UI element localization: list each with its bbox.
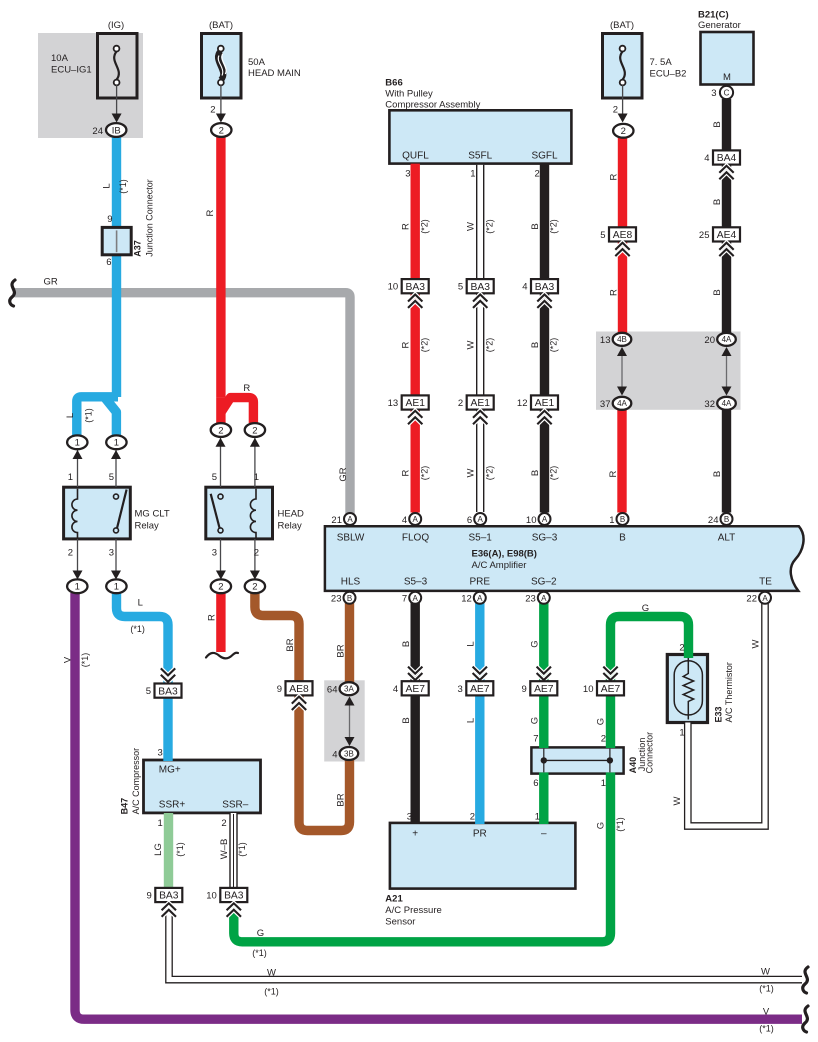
wire G green SG-2 from amplifier through A40 to pressure sensor - [539, 603, 548, 748]
svg-text:G: G [642, 603, 649, 614]
svg-text:BA3: BA3 [159, 891, 179, 902]
svg-text:MG CLT: MG CLT [135, 509, 170, 520]
svg-text:BA3: BA3 [405, 282, 425, 293]
svg-text:A/C Compressor: A/C Compressor [131, 748, 141, 815]
svg-text:Sensor: Sensor [385, 917, 415, 928]
svg-text:AE8: AE8 [289, 684, 309, 695]
svg-text:32: 32 [704, 399, 715, 410]
oval 2 right above HEAD relay [245, 423, 265, 437]
leads HEAD relay pins 5 and 1 up to ovals with arrowheads [220, 438, 222, 487]
svg-text:(*2): (*2) [549, 466, 559, 481]
break at right edge of W wire [803, 967, 808, 993]
svg-text:10: 10 [206, 891, 217, 902]
svg-text:1: 1 [679, 728, 684, 739]
svg-text:4: 4 [402, 515, 407, 526]
svg-text:64: 64 [327, 685, 338, 696]
svg-text:HEAD: HEAD [278, 509, 305, 520]
junction connector A40 box [531, 747, 623, 773]
svg-text:7: 7 [533, 734, 538, 745]
fuse 10A ECU-IG1 symbol [114, 46, 120, 86]
svg-text:2: 2 [221, 818, 226, 829]
svg-text:TE: TE [759, 577, 772, 588]
thermistor E33 symbol [674, 657, 702, 720]
lead from HEAD MAIN fuse to oval 2 with arrowhead [220, 85, 222, 119]
junction oval 20 4A [717, 333, 736, 346]
svg-text:3: 3 [711, 88, 716, 99]
svg-text:2: 2 [252, 425, 257, 436]
svg-text:(*2): (*2) [484, 338, 494, 353]
connector 13 AE1 [402, 395, 429, 409]
connector 25 AE4 on generator wire [713, 227, 740, 241]
svg-text:W: W [466, 222, 477, 231]
svg-text:3: 3 [109, 548, 114, 559]
svg-text:PR: PR [473, 829, 487, 840]
connector 9 AE7 on SG-2 wire [537, 673, 551, 680]
svg-text:4B: 4B [617, 335, 627, 344]
connector oval 2 of HEAD MAIN [211, 123, 231, 137]
svg-text:1: 1 [114, 582, 119, 593]
relay HEAD coil [250, 489, 256, 538]
svg-text:B: B [530, 342, 541, 348]
svg-text:13: 13 [388, 398, 399, 409]
svg-text:With Pulley: With Pulley [385, 89, 433, 100]
double arrow between 3A and 3B ovals [349, 698, 351, 744]
wire BR brown from 3A oval up to amplifier HLS [345, 603, 354, 683]
svg-text:9: 9 [147, 891, 152, 902]
svg-text:L: L [466, 641, 477, 646]
amplifier pin 10 A SG-3 [539, 513, 551, 525]
svg-text:1: 1 [158, 818, 163, 829]
wire L blue fork horizontal and left branch to oval 1 [77, 397, 118, 436]
gray highlight box around 4B/4A junction ovals [596, 332, 741, 410]
svg-text:R: R [401, 341, 412, 348]
svg-text:BA3: BA3 [535, 282, 555, 293]
svg-text:B: B [724, 515, 729, 524]
svg-text:2: 2 [218, 582, 223, 593]
svg-text:(*2): (*2) [484, 466, 494, 481]
svg-text:B: B [712, 121, 723, 127]
svg-text:(*1): (*1) [264, 987, 279, 997]
svg-text:4: 4 [332, 749, 337, 760]
svg-text:B: B [712, 471, 723, 477]
svg-text:B21(C): B21(C) [698, 9, 729, 20]
svg-text:20: 20 [704, 335, 715, 346]
wire GR gray from left edge to amplifier SBLW [15, 293, 351, 519]
svg-text:L: L [65, 413, 76, 418]
connector 10 BA3 on green wire [220, 888, 247, 902]
amplifier pin 23 B HLS [344, 592, 356, 604]
svg-text:B: B [530, 223, 541, 229]
svg-text:5: 5 [109, 472, 114, 483]
wire V purple from oval 1 down left side and along bottom [75, 593, 802, 1019]
svg-text:E36(A), E98(B): E36(A), E98(B) [472, 549, 537, 560]
amplifier pin 23 A SG-2 [538, 592, 550, 604]
connector oval 2 of ECU-B2 [613, 124, 633, 138]
svg-text:V: V [62, 656, 73, 663]
amplifier pin 22 A TE [759, 592, 771, 604]
svg-text:A: A [541, 594, 547, 603]
svg-text:AE7: AE7 [601, 684, 621, 695]
svg-text:4: 4 [522, 282, 527, 293]
svg-text:AE1: AE1 [405, 398, 425, 409]
svg-text:G: G [530, 717, 541, 724]
svg-text:1: 1 [609, 515, 614, 526]
wire B black from junction 4A to amplifier ALT [722, 410, 731, 513]
svg-text:1: 1 [601, 778, 606, 789]
fuse 50A HEAD MAIN box [202, 34, 242, 99]
svg-text:A: A [478, 515, 484, 524]
svg-text:1: 1 [75, 438, 80, 449]
relay HEAD switch [211, 494, 220, 528]
svg-text:AE1: AE1 [470, 398, 490, 409]
svg-text:1: 1 [75, 582, 80, 593]
svg-text:S5–1: S5–1 [469, 533, 493, 544]
svg-text:12: 12 [517, 398, 528, 409]
wire LG light green from SSR+ to 9 BA3 [164, 813, 173, 890]
thermistor E33 box [667, 655, 707, 723]
svg-text:4A: 4A [722, 399, 732, 408]
connector 5 BA3 on blue wire above compressor [161, 675, 175, 682]
svg-text:9: 9 [277, 684, 282, 695]
svg-text:A/C Pressure: A/C Pressure [385, 905, 442, 916]
svg-text:L: L [138, 598, 143, 609]
svg-text:3B: 3B [344, 749, 354, 758]
svg-text:AE4: AE4 [717, 230, 737, 241]
wire R red QUFL from B66 to amplifier FLOQ [411, 164, 420, 513]
svg-text:(*1): (*1) [237, 842, 247, 857]
svg-text:1: 1 [254, 472, 259, 483]
svg-text:W: W [466, 468, 477, 477]
svg-text:–: – [541, 829, 547, 840]
svg-text:BA4: BA4 [717, 153, 737, 164]
svg-text:A: A [542, 515, 548, 524]
svg-text:12: 12 [461, 594, 472, 605]
svg-text:SG–2: SG–2 [531, 577, 557, 588]
generator pin circle C pin 3 [720, 86, 733, 99]
junction oval 4 3B [340, 747, 359, 760]
junction oval 13 4B [613, 333, 632, 346]
svg-text:ECU–B2: ECU–B2 [650, 68, 687, 79]
svg-text:B: B [401, 641, 412, 647]
connector 4 BA4 on generator wire [713, 150, 740, 164]
svg-text:R: R [401, 223, 412, 230]
wire L blue PRE from amplifier to pressure sensor PR [475, 603, 484, 824]
svg-text:3: 3 [405, 169, 410, 180]
svg-text:G: G [595, 822, 606, 829]
svg-text:4A: 4A [617, 399, 627, 408]
connector 5 AE8 on ECU-B2 wire [609, 227, 636, 241]
svg-text:AE7: AE7 [470, 684, 490, 695]
svg-text:Compressor Assembly: Compressor Assembly [385, 99, 480, 110]
svg-text:(BAT): (BAT) [610, 20, 634, 31]
svg-text:A: A [413, 515, 419, 524]
amplifier pin 7 A S5-3 [409, 592, 421, 604]
wire R red from BAT fuse oval down to fork [216, 130, 225, 398]
wire L blue from IB oval through A37 to fork [112, 130, 121, 397]
amplifier pin 24 B ALT [721, 513, 733, 525]
svg-text:B: B [712, 199, 723, 205]
svg-text:(*1): (*1) [252, 948, 267, 958]
lead from ECU-B2 fuse to oval 2 with arrowhead [622, 85, 624, 119]
svg-text:25: 25 [699, 230, 710, 241]
svg-text:22: 22 [746, 594, 757, 605]
amplifier pin 4 A FLOQ [409, 513, 421, 525]
svg-text:SGFL: SGFL [531, 151, 558, 162]
svg-text:SBLW: SBLW [337, 533, 365, 544]
svg-text:3A: 3A [344, 685, 354, 694]
svg-text:2: 2 [613, 105, 618, 116]
amplifier pin 12 A PRE [474, 592, 486, 604]
svg-text:2: 2 [68, 548, 73, 559]
wire R red from ECU-B2 oval to junction 4B [618, 137, 627, 334]
fuse 7.5A ECU-B2 box [603, 34, 643, 99]
svg-text:3: 3 [158, 748, 163, 759]
oval 2 left above HEAD relay [211, 423, 231, 437]
wire R red stub below HEAD relay [216, 593, 225, 652]
svg-text:A37: A37 [132, 240, 142, 257]
wire BR brown from 9 AE8 down, across, up to 3B oval [299, 694, 350, 831]
svg-text:A: A [347, 515, 353, 524]
svg-text:37: 37 [600, 399, 611, 410]
compressor B47 box [144, 760, 261, 813]
svg-text:BR: BR [285, 638, 296, 651]
wire G green from 10 AE7 down through A40 to bottom run [606, 694, 615, 748]
svg-text:+: + [412, 829, 418, 840]
svg-text:A: A [762, 594, 768, 603]
svg-text:B: B [401, 717, 412, 723]
svg-text:Generator: Generator [698, 20, 741, 31]
svg-text:(IG): (IG) [108, 20, 124, 31]
break at left edge of GR wire [10, 280, 15, 306]
svg-text:2: 2 [535, 169, 540, 180]
svg-text:A/C Thermistor: A/C Thermistor [724, 662, 734, 722]
wire B black SGFL from B66 to amplifier SG-3 [540, 164, 549, 513]
svg-text:Relay: Relay [278, 521, 303, 532]
fuse 7.5A ECU-B2 symbol [620, 46, 626, 86]
break squiggle on red stub [206, 653, 238, 659]
svg-text:A21: A21 [385, 894, 403, 905]
relay MG CLT coil [72, 489, 78, 538]
connector oval IB pin 24 [106, 123, 126, 137]
svg-text:(*2): (*2) [419, 219, 429, 234]
connector 10 AE7 on green wire [603, 673, 617, 680]
leads MG CLT relay pins 2 and 3 down to ovals with arrowheads [77, 539, 79, 574]
svg-text:BR: BR [335, 644, 346, 657]
oval 1 right below MG CLT [106, 579, 126, 593]
svg-text:7. 5A: 7. 5A [650, 57, 673, 68]
svg-text:W–B: W–B [219, 839, 230, 860]
svg-text:4: 4 [393, 684, 398, 695]
svg-text:BA3: BA3 [158, 686, 178, 697]
connector 9 AE8 on brown wire [286, 681, 313, 695]
svg-text:E33: E33 [713, 706, 723, 722]
svg-text:S5FL: S5FL [468, 151, 492, 162]
svg-text:L: L [101, 183, 112, 188]
svg-text:(*1): (*1) [615, 817, 625, 832]
svg-text:(*2): (*2) [549, 219, 559, 234]
svg-text:24: 24 [92, 126, 103, 137]
svg-text:BA3: BA3 [224, 891, 244, 902]
svg-text:M: M [723, 72, 731, 83]
svg-text:W: W [466, 340, 477, 349]
svg-text:3: 3 [407, 812, 412, 823]
wire BR brown from HEAD relay oval 2 to 9 AE8 [255, 593, 299, 684]
svg-text:21: 21 [331, 515, 342, 526]
relay MG CLT switch [117, 490, 127, 529]
wire R red left branch to oval 2 [216, 398, 225, 423]
svg-text:MG+: MG+ [159, 765, 181, 776]
svg-text:G: G [257, 928, 264, 939]
amplifier pin 21 A SBLW [344, 513, 356, 525]
svg-text:4: 4 [704, 153, 709, 164]
svg-text:B: B [712, 289, 723, 295]
wire L blue right branch diagonal to oval 1 [106, 399, 117, 436]
svg-text:B: B [347, 594, 352, 603]
connector 12 AE1 [531, 395, 558, 409]
svg-text:B: B [530, 470, 541, 476]
connector 4 BA3 on SGFL wire [531, 279, 558, 293]
svg-text:1: 1 [114, 438, 119, 449]
svg-text:HLS: HLS [341, 577, 361, 588]
svg-text:3: 3 [458, 684, 463, 695]
svg-text:6: 6 [533, 778, 538, 789]
svg-text:1: 1 [68, 472, 73, 483]
junction oval 64 3A [340, 682, 359, 695]
fuse 50A HEAD MAIN symbol [218, 46, 226, 86]
wire L blue jog from oval 1 to 5 BA3 connector [117, 593, 169, 684]
wire B black from generator C to junction 4A [722, 99, 731, 334]
svg-text:R: R [207, 614, 218, 621]
svg-text:(*2): (*2) [549, 338, 559, 353]
svg-text:ECU–IG1: ECU–IG1 [51, 64, 92, 75]
svg-text:SSR+: SSR+ [159, 800, 186, 811]
svg-text:FLOQ: FLOQ [402, 533, 429, 544]
leads MG CLT relay pins 1 and 5 up to ovals with arrowheads [77, 450, 79, 487]
svg-text:ALT: ALT [718, 533, 736, 544]
svg-text:G: G [595, 718, 606, 725]
svg-text:BA3: BA3 [470, 282, 490, 293]
leads HEAD relay pins 3 and 2 down to ovals with arrowheads [220, 539, 222, 574]
svg-text:(*1): (*1) [80, 653, 90, 668]
wire L blue from 5 BA3 to compressor MG+ [163, 696, 172, 761]
svg-text:2: 2 [254, 548, 259, 559]
svg-text:5: 5 [212, 472, 217, 483]
svg-text:(*1): (*1) [84, 408, 94, 423]
svg-text:W: W [267, 968, 276, 979]
wire R red fork diagonal branch to right oval 2 [222, 398, 254, 423]
svg-text:(*1): (*1) [759, 1024, 774, 1034]
wire R red from junction 4A to amplifier B [617, 410, 626, 513]
svg-text:3: 3 [212, 548, 217, 559]
svg-text:A: A [413, 594, 419, 603]
svg-text:SG–3: SG–3 [532, 533, 558, 544]
svg-text:R: R [609, 289, 620, 296]
svg-text:L: L [466, 718, 477, 723]
svg-text:24: 24 [708, 515, 719, 526]
svg-text:AE7: AE7 [534, 684, 554, 695]
svg-text:R: R [243, 383, 250, 394]
svg-text:R: R [401, 469, 412, 476]
svg-text:B: B [619, 533, 626, 544]
svg-text:(*2): (*2) [484, 219, 494, 234]
svg-text:5: 5 [600, 230, 605, 241]
oval 1 right above MG CLT [106, 435, 126, 449]
svg-text:R: R [609, 173, 620, 180]
svg-text:R: R [205, 209, 216, 216]
wire B black S5-3 from amplifier to pressure sensor + [411, 603, 420, 824]
connector 2 AE1 [467, 395, 494, 409]
svg-text:2: 2 [679, 643, 684, 654]
svg-text:Connector: Connector [645, 732, 655, 774]
svg-text:10: 10 [388, 282, 399, 293]
svg-text:7: 7 [402, 594, 407, 605]
svg-text:A: A [477, 594, 483, 603]
double arrow between 4B and 4A ovals left [621, 349, 623, 393]
svg-text:GR: GR [44, 276, 58, 287]
svg-text:6: 6 [467, 515, 472, 526]
svg-text:B: B [620, 515, 625, 524]
svg-text:AE1: AE1 [535, 398, 555, 409]
oval 1 left below MG CLT [67, 579, 87, 593]
wire W-B white-black from SSR- to 10 BA3 [229, 813, 237, 890]
svg-text:50A: 50A [248, 57, 266, 68]
svg-text:2: 2 [601, 734, 606, 745]
svg-text:LG: LG [153, 843, 164, 856]
gray highlight box around ECU-IG1 fuse [38, 33, 143, 138]
svg-text:Junction Connector: Junction Connector [144, 179, 154, 257]
svg-text:2: 2 [218, 425, 223, 436]
svg-text:2: 2 [252, 582, 257, 593]
svg-text:(*1): (*1) [175, 842, 185, 857]
svg-text:W: W [672, 796, 683, 805]
lead from ECU-IG1 fuse to IB oval with arrowhead [116, 85, 118, 119]
svg-text:(*1): (*1) [130, 624, 145, 634]
svg-text:S5–3: S5–3 [404, 577, 428, 588]
oval 1 left above MG CLT [67, 435, 87, 449]
relay HEAD box [206, 487, 273, 539]
double arrow between 4A and 4A ovals right [726, 349, 728, 393]
wire W white S5FL from B66 to amplifier S5-1 [476, 165, 484, 512]
svg-text:W: W [761, 967, 770, 978]
svg-text:G: G [530, 640, 541, 647]
junction oval 32 4A [717, 397, 736, 410]
svg-text:B66: B66 [385, 78, 402, 89]
gray highlight box around 3A/3B junction ovals [324, 680, 365, 761]
amplifier pin 6 A S5-1 [474, 513, 486, 525]
svg-text:(*1): (*1) [759, 984, 774, 994]
generator B21(C) box [701, 32, 754, 85]
svg-text:HEAD MAIN: HEAD MAIN [248, 68, 301, 79]
compressor assembly B66 box [389, 110, 571, 163]
svg-text:2: 2 [470, 812, 475, 823]
wire W white from 9 BA3 down and right to page edge [169, 905, 802, 980]
svg-text:AE7: AE7 [405, 684, 425, 695]
svg-text:2: 2 [621, 126, 626, 137]
svg-text:(*2): (*2) [419, 338, 429, 353]
connector 4 AE7 on S5-3 wire [408, 673, 422, 680]
svg-text:4A: 4A [722, 335, 732, 344]
svg-text:9: 9 [107, 214, 112, 225]
svg-text:2: 2 [458, 398, 463, 409]
svg-text:A/C Amplifier: A/C Amplifier [472, 560, 527, 571]
wire W white loop thermistor E33 pin 1 to amplifier TE [688, 603, 765, 826]
svg-text:5: 5 [458, 282, 463, 293]
svg-text:R: R [608, 470, 619, 477]
connector 10 BA3 on QUFL wire [402, 279, 429, 293]
A/C amplifier E36(A) E98(B) box with torn right edge [325, 526, 804, 591]
svg-text:SSR–: SSR– [222, 800, 249, 811]
svg-text:(*2): (*2) [419, 466, 429, 481]
